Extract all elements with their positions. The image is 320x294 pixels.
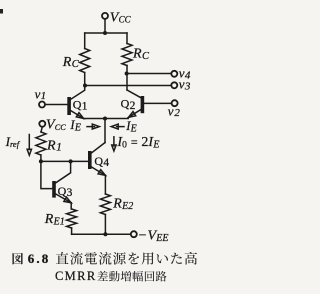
- svg-text:CMRR: CMRR: [55, 269, 97, 283]
- svg-text:6.8: 6.8: [28, 251, 51, 266]
